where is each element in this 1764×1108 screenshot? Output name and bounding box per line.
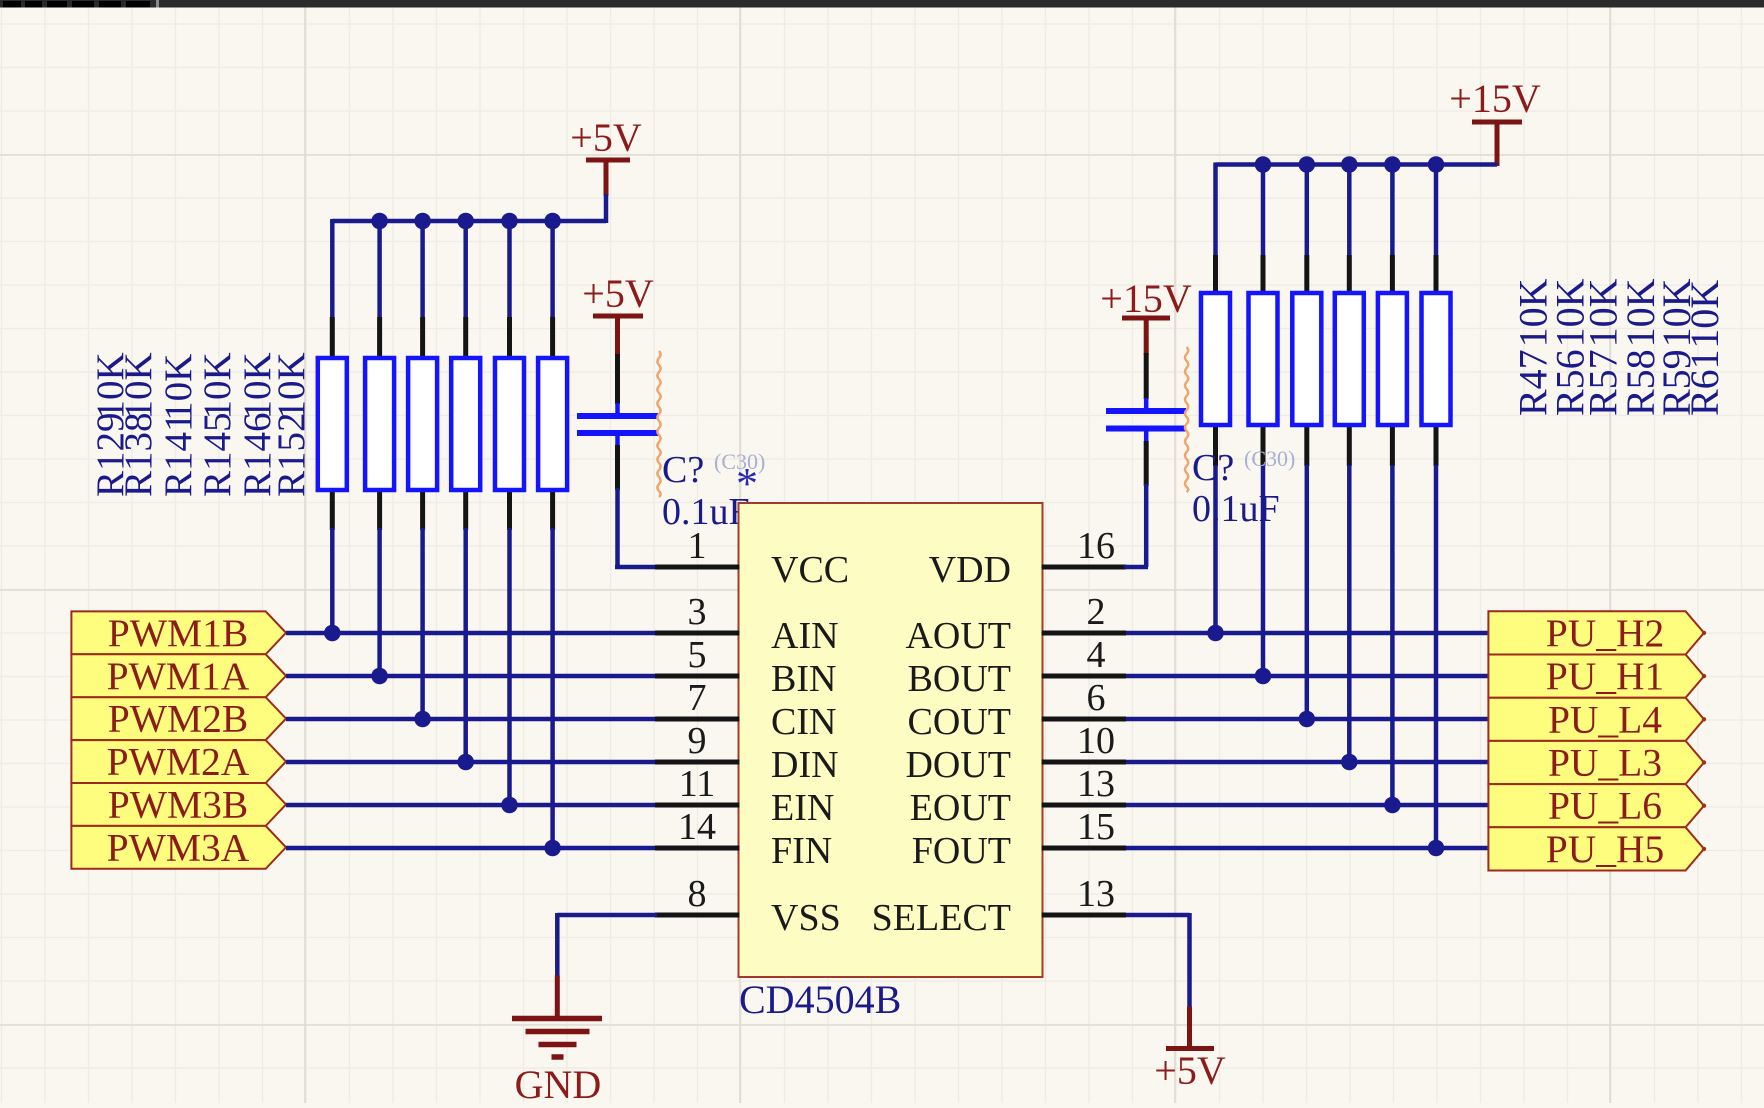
port PU_H2 (1488, 611, 1706, 655)
resistor R146 10K (495, 317, 524, 530)
port PWM1B (71, 611, 286, 655)
pin 16 VDD (929, 525, 1126, 591)
junction PU row 1 (1207, 625, 1224, 642)
junction right bus 2 (1255, 156, 1272, 173)
junction right bus 4 (1341, 156, 1358, 173)
capacitor C? 0.1uF (left) (577, 354, 658, 490)
wire left column 1 lower (330, 528, 335, 633)
wire pin to PU_H2 (1126, 631, 1488, 636)
pin 6 COUT (908, 677, 1126, 743)
resistor R129 10K (318, 317, 347, 530)
svg-text:PU_L4: PU_L4 (1548, 697, 1662, 741)
svg-text:0.1uF: 0.1uF (1192, 488, 1280, 530)
junction PWM row 4 (457, 754, 474, 771)
svg-text:PWM2B: PWM2B (108, 697, 248, 741)
port PWM3A (71, 825, 286, 869)
svg-text:BOUT: BOUT (908, 658, 1011, 700)
wire right bus (1216, 162, 1498, 167)
svg-text:AIN: AIN (771, 615, 839, 657)
svg-text:VCC: VCC (771, 549, 849, 591)
power +5V (bottom right, inverted) (1154, 1007, 1226, 1094)
port PU_L6 (1488, 784, 1706, 828)
junction PU row 5 (1384, 797, 1401, 814)
svg-text:R15210K: R15210K (270, 352, 313, 497)
pin 13 EOUT (910, 763, 1126, 829)
port PU_H5 (1488, 827, 1706, 871)
power +5V (left cap) (582, 271, 654, 356)
svg-text:5: 5 (688, 634, 707, 676)
wire SELECT to +5V (1126, 913, 1190, 1008)
label R57 10K (1581, 278, 1626, 416)
wire right column 6 lower (1434, 465, 1439, 848)
svg-text:(C30): (C30) (1244, 446, 1295, 471)
wire right cap to VDD pin16 (1124, 484, 1148, 567)
pin 3 AIN (655, 591, 839, 657)
label R129 10K (89, 352, 132, 497)
svg-text:DIN: DIN (771, 744, 839, 786)
svg-text:13: 13 (1077, 763, 1115, 805)
power +15V (top right) (1449, 76, 1541, 166)
wire left column 5 upper (507, 219, 512, 317)
wire PWM2B to pin (286, 717, 657, 722)
svg-text:EIN: EIN (771, 787, 834, 829)
junction PWM row 6 (544, 840, 561, 857)
wire right column 3 upper (1305, 163, 1310, 256)
svg-text:PWM2A: PWM2A (107, 740, 250, 784)
pin 11 EIN (655, 763, 834, 829)
resistor R61 10K (1422, 255, 1451, 466)
wire left column 1 upper (330, 219, 335, 317)
wire left column 3 lower (420, 528, 425, 719)
svg-text:15: 15 (1077, 806, 1115, 848)
wire pin to PU_H1 (1126, 674, 1488, 679)
wire left bus (332, 194, 606, 223)
pin 9 DIN (655, 720, 839, 786)
junction right bus 5 (1384, 156, 1401, 173)
junction PU row 4 (1341, 754, 1358, 771)
svg-text:R14510K: R14510K (196, 352, 239, 497)
pin 13 SELECT (872, 873, 1126, 939)
top window bar (0, 0, 1764, 8)
svg-text:PU_H1: PU_H1 (1546, 654, 1665, 698)
wire PWM1B to pin (286, 631, 657, 636)
junction PWM row 5 (501, 797, 518, 814)
wire left column 2 upper (377, 219, 382, 317)
svg-text:PWM1B: PWM1B (108, 611, 248, 655)
wire right column 1 upper (1213, 163, 1218, 256)
wire left column 4 lower (463, 528, 468, 762)
resistor R141 10K (408, 317, 437, 530)
svg-text:COUT: COUT (908, 701, 1011, 743)
power +5V (top left) (570, 115, 642, 196)
svg-text:6: 6 (1087, 677, 1106, 719)
svg-text:AOUT: AOUT (905, 615, 1011, 657)
port PWM2A (71, 740, 286, 784)
svg-text:VDD: VDD (929, 549, 1011, 591)
no-ERC marker (left) (657, 351, 660, 497)
svg-text:9: 9 (688, 720, 707, 762)
junction PWM row 2 (371, 668, 388, 685)
pin 5 BIN (655, 634, 836, 700)
svg-text:1: 1 (688, 525, 707, 567)
svg-text:R13810K: R13810K (117, 352, 160, 497)
svg-text:4: 4 (1087, 634, 1106, 676)
pin 8 VSS (655, 873, 841, 939)
svg-text:+15V: +15V (1449, 76, 1541, 121)
wire right column 4 upper (1347, 163, 1352, 256)
junction PWM row 3 (414, 711, 431, 728)
label R145 10K (196, 352, 239, 497)
label R47 10K (1511, 278, 1556, 416)
pin 7 CIN (655, 677, 836, 743)
ground GND (512, 976, 602, 1108)
svg-text:2: 2 (1087, 591, 1106, 633)
wire pin to PU_L6 (1126, 803, 1488, 808)
svg-text:C?: C? (1192, 447, 1234, 489)
svg-text:+15V: +15V (1100, 276, 1192, 321)
svg-text:PWM3B: PWM3B (108, 782, 248, 826)
label R61 10K (1682, 280, 1727, 416)
wire right column 1 lower (1213, 465, 1218, 633)
svg-text:FOUT: FOUT (912, 830, 1011, 872)
svg-text:FIN: FIN (771, 830, 832, 872)
wire VSS to ground (557, 913, 657, 977)
wire right column 6 upper (1434, 163, 1439, 256)
pin 15 FOUT (912, 806, 1126, 872)
pin 1 VCC (655, 525, 849, 591)
pin 14 FIN (655, 806, 832, 872)
svg-text:DOUT: DOUT (905, 744, 1011, 786)
resistor R57 10K (1292, 255, 1321, 466)
svg-text:PWM1A: PWM1A (107, 654, 250, 698)
wire right column 5 upper (1390, 163, 1395, 256)
svg-text:CD4504B: CD4504B (739, 977, 901, 1022)
svg-text:3: 3 (688, 591, 707, 633)
port PWM1A (71, 654, 286, 698)
wire PWM3A to pin (286, 846, 657, 851)
port PU_H1 (1488, 654, 1706, 698)
wire PWM1A to pin (286, 674, 657, 679)
pin 2 AOUT (905, 591, 1126, 657)
wire right column 5 lower (1390, 465, 1395, 805)
svg-text:R14110K: R14110K (157, 354, 200, 497)
svg-text:11: 11 (679, 763, 716, 805)
port PWM3B (71, 782, 286, 826)
wire PWM2A to pin (286, 760, 657, 765)
junction PU row 2 (1255, 668, 1272, 685)
junction PU row 6 (1428, 840, 1445, 857)
resistor R138 10K (365, 317, 394, 530)
wire left column 6 lower (550, 528, 555, 848)
junction PU row 3 (1299, 711, 1316, 728)
wire left column 2 lower (377, 528, 382, 676)
svg-text:R6110K: R6110K (1682, 280, 1727, 416)
junction PWM row 1 (324, 625, 341, 642)
label R59 10K (1654, 278, 1699, 416)
pin 4 BOUT (908, 634, 1126, 700)
svg-text:CIN: CIN (771, 701, 836, 743)
junction left bus 6 (544, 213, 561, 230)
label R138 10K (117, 352, 160, 497)
svg-text:PU_H2: PU_H2 (1546, 611, 1665, 655)
junction left bus 2 (371, 213, 388, 230)
wire right column 2 lower (1261, 465, 1266, 676)
capacitor C? 0.1uF (right) (1106, 353, 1186, 486)
svg-text:SELECT: SELECT (872, 897, 1011, 939)
svg-text:PU_L3: PU_L3 (1548, 741, 1662, 785)
no-ERC marker (right) (1185, 347, 1188, 492)
svg-text:C?: C? (662, 449, 704, 491)
label R58 10K (1618, 278, 1663, 416)
label R146 10K (236, 352, 279, 497)
svg-text:VSS: VSS (771, 897, 841, 939)
svg-text:+5V: +5V (570, 115, 642, 160)
resistor R58 10K (1335, 255, 1364, 466)
op-amp/IC U? CD4504B body (739, 503, 1043, 977)
wire right column 2 upper (1261, 163, 1266, 256)
svg-text:+5V: +5V (1154, 1048, 1226, 1093)
svg-text:PWM3A: PWM3A (107, 825, 250, 869)
wire pin to PU_H5 (1126, 846, 1488, 851)
svg-text:EOUT: EOUT (910, 787, 1011, 829)
wire PWM3B to pin (286, 803, 657, 808)
wire left column 6 upper (550, 219, 555, 317)
wire left column 3 upper (420, 219, 425, 317)
port PWM2B (71, 697, 286, 741)
svg-text:8: 8 (688, 873, 707, 915)
port PU_L3 (1488, 741, 1706, 785)
wire left cap to VCC pin1 (615, 488, 657, 567)
svg-text:PU_H5: PU_H5 (1546, 827, 1665, 871)
resistor R152 10K (538, 317, 567, 530)
wire pin to PU_L4 (1126, 717, 1488, 722)
wire left column 4 upper (463, 219, 468, 317)
svg-text:PU_L6: PU_L6 (1548, 784, 1662, 828)
junction left bus 5 (501, 213, 518, 230)
svg-text:14: 14 (678, 806, 716, 848)
pin 10 DOUT (905, 720, 1126, 786)
resistor R59 10K (1378, 255, 1407, 466)
label R152 10K (270, 352, 313, 497)
junction right bus 3 (1299, 156, 1316, 173)
junction right bus 6 (1428, 156, 1445, 173)
svg-text:7: 7 (688, 677, 707, 719)
resistor R145 10K (451, 317, 480, 530)
svg-text:16: 16 (1077, 525, 1115, 567)
resistor R47 10K (1201, 255, 1230, 466)
wire pin to PU_L3 (1126, 760, 1488, 765)
power +15V (right cap) (1100, 276, 1192, 355)
svg-text:+5V: +5V (582, 271, 654, 316)
wire right column 3 lower (1305, 465, 1310, 719)
junction left bus 4 (457, 213, 474, 230)
wire left column 5 lower (507, 528, 512, 805)
label R141 10K (157, 354, 200, 497)
svg-text:GND: GND (515, 1062, 602, 1103)
svg-text:10: 10 (1077, 720, 1115, 762)
svg-text:13: 13 (1077, 873, 1115, 915)
resistor R56 10K (1249, 255, 1278, 466)
label R56 10K (1548, 278, 1593, 416)
svg-text:BIN: BIN (771, 658, 836, 700)
junction left bus 3 (414, 213, 431, 230)
wire right column 4 lower (1347, 465, 1352, 762)
port PU_L4 (1488, 697, 1706, 741)
